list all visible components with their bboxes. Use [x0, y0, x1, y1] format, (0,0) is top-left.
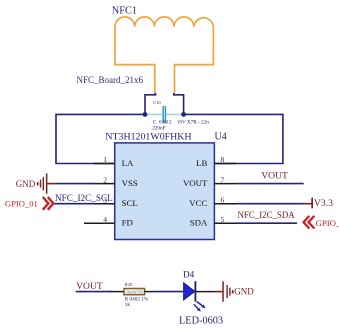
pin 8 LB stub — [214, 163, 236, 165]
svg-text:LA: LA — [122, 158, 134, 168]
svg-text:SCL: SCL — [122, 198, 138, 208]
node junction right — [181, 112, 186, 117]
svg-text:1k: 1k — [125, 302, 131, 308]
wire pin5 SDA — [236, 222, 297, 224]
svg-text:VOUT: VOUT — [261, 170, 288, 181]
wire pin3 to port — [53, 203, 95, 205]
pin 3 SCL stub — [94, 203, 115, 205]
LED D4 triangle — [184, 283, 196, 301]
svg-text:LED-0603: LED-0603 — [179, 316, 223, 327]
wire LED to GND — [195, 291, 215, 293]
svg-text:VSS: VSS — [122, 178, 138, 188]
svg-text:2: 2 — [103, 175, 107, 184]
wire antenna right leg to cap node — [174, 93, 184, 114]
svg-text:16V X7R - 22n: 16V X7R - 22n — [177, 120, 209, 126]
capacitor C10 plates — [162, 106, 164, 123]
svg-text:NFC_I2C_SDA: NFC_I2C_SDA — [238, 210, 296, 220]
inductor NFC1 (antenna coil) — [115, 17, 213, 94]
svg-text:LB: LB — [196, 158, 207, 168]
svg-text:C10: C10 — [153, 100, 161, 105]
svg-text:VOUT: VOUT — [183, 178, 208, 188]
pin 6 VCC stub — [214, 203, 236, 205]
svg-text:GPIO_01: GPIO_01 — [5, 198, 38, 208]
resistor R20 left pin — [110, 291, 124, 293]
svg-text:6: 6 — [221, 195, 225, 204]
LED D4 cathode bar — [194, 281, 196, 301]
LED D4 emission arrows — [194, 302, 206, 312]
power port GND (bottom) — [215, 281, 234, 301]
svg-text:NFC_Board_21x6: NFC_Board_21x6 — [77, 75, 144, 85]
power port V3.3 — [305, 198, 313, 209]
capacitor C3 lead right (cyan) — [166, 113, 183, 115]
svg-text:VCC: VCC — [189, 198, 207, 208]
wire main horizontal net (LA side) — [56, 114, 145, 163]
wire main horizontal net (LB side) — [184, 114, 283, 163]
svg-text:U4: U4 — [215, 132, 227, 143]
svg-text:VOUT: VOUT — [76, 281, 103, 292]
resistor R20 right pin — [145, 291, 153, 293]
wire VOUT to resistor — [76, 291, 111, 293]
wire pin6 to V3.3 — [236, 203, 305, 205]
svg-text:FD: FD — [122, 218, 133, 228]
svg-text:3: 3 — [103, 195, 107, 204]
svg-text:V3.3: V3.3 — [314, 198, 333, 209]
pin 5 SDA stub — [214, 222, 236, 224]
svg-text:1: 1 — [103, 155, 107, 164]
port GPIO_01 chevron — [43, 197, 54, 210]
pin 2 VSS stub — [94, 183, 115, 185]
svg-text:5: 5 — [221, 215, 225, 224]
IC U4 body — [115, 143, 215, 240]
wire pin2 to GND — [57, 183, 95, 185]
svg-text:NT3H1201W0FHKH: NT3H1201W0FHKH — [105, 132, 191, 143]
svg-text:8: 8 — [221, 155, 225, 164]
pin 7 VOUT stub — [214, 183, 236, 185]
capacitor C3 lead left (cyan) — [145, 113, 162, 115]
power port GND (left) — [37, 173, 58, 193]
svg-text:SDA: SDA — [190, 218, 208, 228]
svg-text:GPIO_0: GPIO_0 — [316, 218, 339, 228]
pin 1 LA stub — [94, 163, 115, 165]
wire resistor to LED — [153, 291, 184, 293]
resistor R20 body — [124, 289, 145, 295]
svg-text:R20: R20 — [125, 282, 133, 287]
svg-text:NFC1: NFC1 — [112, 6, 137, 17]
wire antenna left leg to cap node — [145, 93, 156, 114]
pin 4 FD stub — [84, 222, 115, 224]
port GPIO chevron — [304, 216, 315, 229]
svg-text:4: 4 — [103, 215, 107, 224]
wire pin7 VOUT — [236, 183, 304, 185]
svg-text:D4: D4 — [183, 270, 195, 280]
svg-text:GND: GND — [234, 287, 254, 297]
node junction left — [143, 112, 148, 117]
svg-text:10mW 5%: 10mW 5% — [126, 290, 144, 295]
svg-text:GND: GND — [16, 179, 36, 189]
svg-text:7: 7 — [221, 175, 225, 184]
